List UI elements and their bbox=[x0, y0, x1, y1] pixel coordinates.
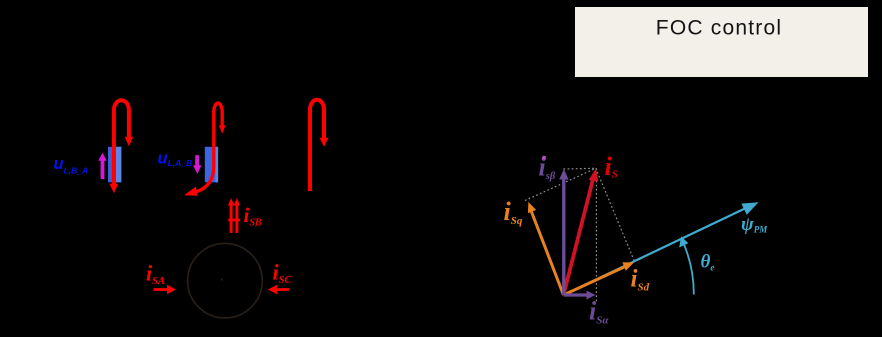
svg-text:iSα: iSα bbox=[589, 297, 609, 327]
svg-text:iSq: iSq bbox=[504, 197, 523, 227]
svg-text:isβ: isβ bbox=[539, 153, 556, 183]
svg-text:uL,B_A: uL,B_A bbox=[54, 155, 89, 176]
svg-text:iSC: iSC bbox=[273, 260, 293, 287]
svg-text:iSd: iSd bbox=[631, 266, 650, 294]
svg-text:ψPM: ψPM bbox=[741, 214, 768, 235]
svg-text:iSA: iSA bbox=[146, 261, 165, 288]
svg-text:θe: θe bbox=[701, 252, 715, 273]
svg-text:iS: iS bbox=[605, 152, 618, 181]
svg-text:iSB: iSB bbox=[244, 203, 262, 229]
svg-text:FOC control: FOC control bbox=[656, 17, 782, 40]
svg-text:uL,A_B: uL,A_B bbox=[158, 149, 193, 168]
